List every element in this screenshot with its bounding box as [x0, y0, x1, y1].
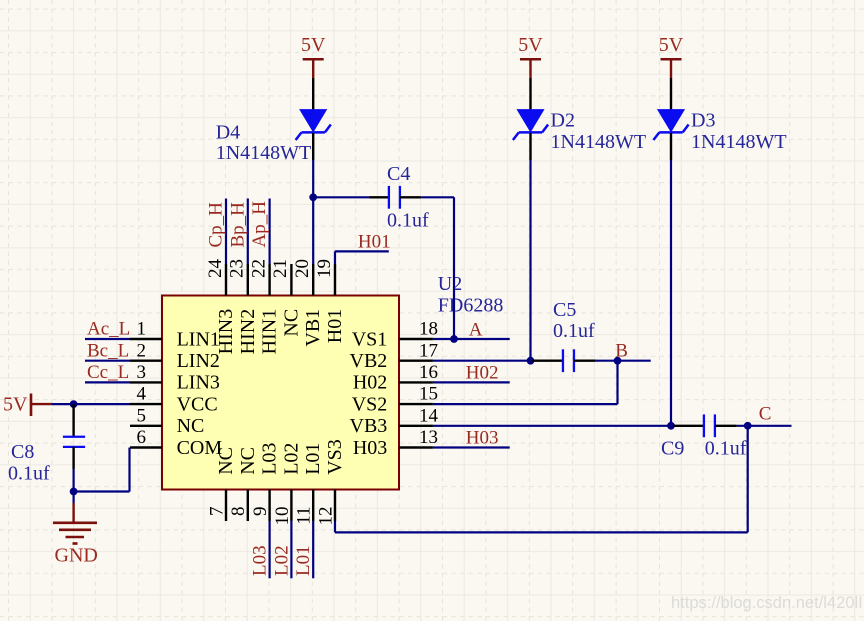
- svg-text:VB1: VB1: [302, 309, 324, 347]
- junction D4/C4: [309, 193, 317, 201]
- wire D2 cathode down: [529, 160, 531, 361]
- U2 pin 18 VS1: [352, 319, 438, 351]
- net label Cc_L: [87, 362, 129, 383]
- svg-text:14: 14: [419, 405, 439, 426]
- net label Bp_H: [227, 202, 248, 248]
- svg-text:15: 15: [419, 384, 438, 405]
- svg-text:5V: 5V: [518, 34, 543, 56]
- svg-text:D3: D3: [691, 110, 715, 132]
- U2 pin 19 H01: [314, 259, 346, 343]
- svg-text:22: 22: [248, 259, 269, 278]
- svg-text:Cp_H: Cp_H: [206, 202, 227, 248]
- net label B: [615, 340, 628, 361]
- svg-text:21: 21: [270, 259, 291, 278]
- IC U2 FD6288 body: [162, 296, 399, 490]
- C4 designator: [387, 163, 410, 185]
- svg-text:5V: 5V: [3, 394, 28, 416]
- U2 pin 15 VS2: [352, 384, 438, 416]
- U2 pin 7 NC: [206, 447, 237, 521]
- svg-text:0.1uf: 0.1uf: [705, 438, 747, 460]
- svg-text:L01: L01: [293, 545, 314, 576]
- svg-text:C4: C4: [387, 163, 410, 185]
- svg-text:7: 7: [206, 507, 227, 517]
- C8 designator: [11, 441, 34, 463]
- svg-text:23: 23: [227, 259, 248, 278]
- net label H03: [466, 427, 499, 448]
- wire net Ac_L: [85, 338, 130, 340]
- wire COM return: [74, 448, 130, 492]
- wire net H01: [335, 251, 389, 264]
- svg-text:Ap_H: Ap_H: [249, 201, 270, 248]
- U2 designator: [438, 273, 462, 295]
- svg-text:5V: 5V: [659, 34, 684, 56]
- svg-text:18: 18: [419, 319, 438, 340]
- svg-text:0.1uf: 0.1uf: [387, 210, 429, 232]
- svg-text:L02: L02: [280, 443, 302, 475]
- wire D3 cathode down: [670, 160, 672, 426]
- U2 pin 17 VB2: [350, 340, 438, 372]
- C5 value 0.1uf: [553, 320, 595, 342]
- U2 pin 2 LIN2: [130, 340, 220, 372]
- U2 pin 12 VS3: [315, 439, 346, 525]
- U2 pin 9 L03: [250, 443, 281, 521]
- U2 pin 22 HIN1: [248, 259, 280, 354]
- wire net Cp_H: [225, 199, 227, 265]
- svg-text:NC: NC: [237, 447, 259, 475]
- svg-text:HIN2: HIN2: [237, 309, 259, 355]
- D2 designator: [551, 110, 575, 132]
- svg-text:VB3: VB3: [350, 415, 388, 437]
- svg-text:H01: H01: [324, 309, 346, 343]
- capacitor C4: [370, 186, 422, 209]
- svg-text:HIN1: HIN1: [259, 309, 281, 355]
- wire node B to pin 15 VS2: [433, 361, 618, 404]
- net label Ac_L: [87, 319, 130, 340]
- U2 pin 10 L02: [272, 443, 303, 526]
- net label L02: [271, 545, 292, 576]
- svg-text:VS1: VS1: [352, 328, 388, 350]
- diode D2 1N4148WT: [513, 78, 548, 160]
- svg-text:Ac_L: Ac_L: [87, 319, 130, 340]
- svg-text:1N4148WT: 1N4148WT: [691, 131, 787, 153]
- svg-text:Cc_L: Cc_L: [87, 362, 129, 383]
- junction C8/COM/GND: [70, 488, 78, 496]
- power port 5V (left): [3, 394, 53, 417]
- svg-text:C8: C8: [11, 441, 34, 463]
- svg-text:1N4148WT: 1N4148WT: [216, 142, 312, 164]
- net label L03: [250, 545, 271, 576]
- C5 designator: [553, 299, 576, 321]
- power port 5V (above D4): [301, 34, 326, 78]
- svg-text:HIN3: HIN3: [215, 309, 237, 355]
- svg-text:LIN1: LIN1: [177, 328, 220, 350]
- wire junction to C4: [313, 196, 369, 198]
- U2 pin 11 L01: [294, 443, 325, 525]
- wire net Ap_H: [269, 199, 271, 265]
- svg-text:2: 2: [137, 340, 147, 361]
- net label Ap_H: [249, 201, 270, 248]
- net label A: [469, 319, 483, 340]
- D2 value 1N4148WT: [551, 131, 647, 153]
- svg-text:H03: H03: [466, 427, 499, 448]
- svg-text:H02: H02: [466, 362, 499, 383]
- wire pin 17 VB2 to C5: [433, 360, 532, 362]
- net label L01: [293, 545, 314, 576]
- D4 value 1N4148WT: [216, 142, 312, 164]
- junction node B: [614, 357, 622, 365]
- svg-text:Bc_L: Bc_L: [87, 340, 129, 361]
- diode D3 1N4148WT: [653, 78, 688, 160]
- svg-text:4: 4: [137, 384, 147, 405]
- svg-text:GND: GND: [55, 545, 98, 567]
- svg-text:C5: C5: [553, 299, 576, 321]
- svg-text:VCC: VCC: [177, 393, 218, 415]
- wire node C to pin 12 VS3: [335, 426, 748, 533]
- svg-text:U2: U2: [438, 273, 462, 295]
- wire net L03: [269, 521, 271, 578]
- U2 pin 21 NC: [270, 259, 302, 337]
- svg-text:LIN2: LIN2: [177, 350, 220, 372]
- D4 designator: [216, 122, 240, 144]
- svg-text:FD6288: FD6288: [438, 295, 504, 317]
- diode D4 1N4148WT: [296, 78, 331, 160]
- wire net Bc_L: [85, 360, 130, 362]
- svg-text:NC: NC: [280, 309, 302, 337]
- svg-text:3: 3: [137, 362, 147, 383]
- U2 pin 8 NC: [228, 447, 259, 521]
- U2 pin 23 HIN2: [227, 259, 259, 354]
- svg-text:H02: H02: [353, 372, 387, 394]
- svg-text:H03: H03: [353, 437, 387, 459]
- net label C: [759, 404, 772, 425]
- svg-text:20: 20: [292, 259, 313, 278]
- svg-text:C: C: [759, 404, 772, 425]
- wire net H03: [433, 446, 510, 448]
- ground GND: [53, 492, 98, 567]
- net label Cp_H: [206, 202, 227, 248]
- junction VCC/C8: [70, 400, 78, 408]
- svg-text:24: 24: [205, 259, 226, 279]
- power port 5V (above D2): [518, 34, 543, 78]
- C4 value 0.1uf: [387, 210, 429, 232]
- svg-text:L03: L03: [250, 545, 271, 576]
- net label H02: [466, 362, 499, 383]
- svg-text:D2: D2: [551, 110, 575, 132]
- svg-text:9: 9: [250, 507, 271, 517]
- wire net Bp_H: [247, 199, 249, 265]
- svg-text:VS3: VS3: [324, 439, 346, 475]
- capacitor C9: [673, 414, 737, 437]
- wire 5V to VCC pin4: [52, 403, 130, 405]
- svg-text:0.1uf: 0.1uf: [553, 320, 595, 342]
- svg-text:VB2: VB2: [350, 350, 388, 372]
- svg-text:NC: NC: [215, 447, 237, 475]
- svg-text:1N4148WT: 1N4148WT: [551, 131, 647, 153]
- svg-text:H01: H01: [358, 232, 391, 253]
- wire net L01: [312, 521, 314, 578]
- svg-text:17: 17: [419, 340, 438, 361]
- C8 value 0.1uf: [8, 463, 50, 485]
- junction D2/VB2: [527, 357, 535, 365]
- svg-text:D4: D4: [216, 122, 240, 144]
- svg-text:6: 6: [137, 427, 147, 448]
- svg-text:1: 1: [137, 319, 147, 340]
- svg-text:10: 10: [272, 507, 293, 526]
- svg-text:L02: L02: [271, 545, 292, 576]
- svg-text:16: 16: [419, 362, 438, 383]
- D3 value 1N4148WT: [691, 131, 787, 153]
- net label Bc_L: [87, 340, 129, 361]
- wire net H02: [433, 381, 510, 383]
- svg-text:B: B: [615, 340, 628, 361]
- svg-text:5: 5: [137, 405, 147, 426]
- junction D3/VB3: [667, 422, 675, 430]
- svg-text:8: 8: [228, 507, 249, 517]
- U2 pin 13 H03: [353, 427, 438, 459]
- U2 pin 1 LIN1: [130, 319, 220, 351]
- U2 pin 20 VB1: [292, 259, 324, 347]
- wire net Cc_L: [85, 381, 130, 383]
- U2 pin 14 VB3: [350, 405, 439, 437]
- power port 5V (above D3): [659, 34, 684, 78]
- svg-text:Bp_H: Bp_H: [227, 202, 248, 248]
- C9 value 0.1uf: [705, 438, 747, 460]
- svg-text:VS2: VS2: [352, 393, 388, 415]
- wire pin 14 VB3 to C9: [433, 425, 673, 427]
- wire C5 to node B: [596, 360, 651, 362]
- U2 pin 16 H02: [353, 362, 438, 394]
- U2 pin 24 HIN3: [205, 259, 237, 355]
- svg-text:19: 19: [314, 259, 335, 278]
- svg-text:LIN3: LIN3: [177, 372, 220, 394]
- svg-text:L01: L01: [302, 443, 324, 475]
- svg-text:12: 12: [315, 507, 336, 526]
- svg-text:A: A: [469, 319, 483, 340]
- wire D4 to pin 20 VB1: [312, 160, 314, 264]
- U2 value FD6288: [438, 295, 504, 317]
- D3 designator: [691, 110, 715, 132]
- U2 pin 4 VCC: [130, 384, 218, 416]
- capacitor C8: [63, 404, 85, 491]
- net label H01: [358, 232, 391, 253]
- C9 designator: [661, 438, 684, 460]
- svg-text:L03: L03: [259, 443, 281, 475]
- wire net A (VS1 pin 18): [433, 338, 510, 340]
- svg-text:5V: 5V: [301, 34, 326, 56]
- wire C4 to node A: [421, 197, 454, 339]
- junction node C: [744, 422, 752, 430]
- junction node A: [450, 335, 458, 343]
- svg-text:NC: NC: [177, 415, 205, 437]
- U2 pin 6 COM: [130, 427, 222, 459]
- svg-text:C9: C9: [661, 438, 684, 460]
- svg-text:13: 13: [419, 427, 438, 448]
- U2 pin 3 LIN3: [130, 362, 220, 394]
- wire C9 to node C: [737, 425, 792, 427]
- wire net L02: [290, 521, 292, 578]
- U2 pin 5 NC: [130, 405, 204, 437]
- svg-text:https://blog.csdn.net/l420lI: https://blog.csdn.net/l420lI: [671, 594, 863, 612]
- svg-text:0.1uf: 0.1uf: [8, 463, 50, 485]
- svg-text:11: 11: [294, 507, 315, 525]
- capacitor C5: [532, 349, 596, 372]
